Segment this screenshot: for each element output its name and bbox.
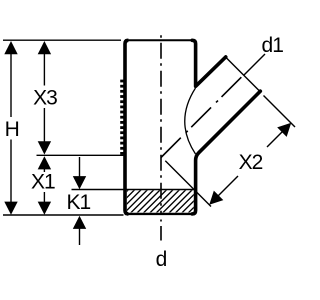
svg-text:X3: X3 bbox=[33, 87, 57, 110]
dimension X1: vertical line bbox=[43, 162, 45, 172]
intersection arc of branch inside pipe bbox=[185, 88, 196, 154]
branch centerline (45 deg axis, dash-dot) bbox=[161, 75, 244, 158]
hatch: sectioned socket wall at bottom of fitting bbox=[100, 185, 216, 218]
dimension X2 line along branch axis bbox=[217, 176, 238, 197]
main centerline (vertical axis of pipe, dash-dot) bbox=[160, 35, 162, 215]
K1 arrow down (above line) bbox=[73, 176, 86, 189]
mid reference line (branch root level) bbox=[37, 154, 125, 156]
svg-text:d: d bbox=[156, 248, 167, 271]
d1 leader line (extension of branch axis to label) bbox=[244, 54, 265, 75]
X2 upper extension line (branch end face extended) bbox=[264, 96, 296, 128]
dimension H: vertical line bbox=[10, 47, 12, 117]
X3 arrow down bbox=[38, 141, 51, 154]
dimension X3: vertical line bbox=[43, 48, 45, 86]
branch lower edge + pipe right wall lower (thick) bbox=[192, 91, 260, 214]
serration ticks on left wall of socket bbox=[120, 81, 124, 153]
X2 arrow lower (points down-left) bbox=[209, 191, 223, 205]
svg-text:K1: K1 bbox=[66, 191, 90, 214]
H arrow up bbox=[4, 41, 17, 54]
H arrow down bbox=[4, 202, 17, 215]
pipe left wall (thick) bbox=[125, 40, 128, 214]
X2 lower extension line (through axis crossing, perpendicular to branch) bbox=[165, 161, 211, 207]
svg-text:d1: d1 bbox=[262, 34, 284, 57]
pipe top edge (spigot end, medium line) bbox=[125, 39, 195, 41]
dimension K1: arrows outside bbox=[79, 157, 81, 178]
svg-text:X1: X1 bbox=[31, 171, 55, 194]
branch end face (socket opening, thin line) bbox=[226, 57, 260, 91]
top reference line (top of fitting) bbox=[3, 39, 121, 41]
svg-text:X2: X2 bbox=[239, 151, 263, 174]
pipe right wall upper + branch upper edge (thick) bbox=[192, 40, 226, 86]
bottom reference line (bottom of fitting) bbox=[3, 214, 124, 216]
K1 reference line (socket shoulder) bbox=[72, 189, 195, 191]
X3 arrow up bbox=[38, 41, 51, 54]
svg-text:H: H bbox=[5, 118, 19, 141]
pipe bottom edge (medium line) bbox=[125, 213, 195, 215]
K1 arrow up (below line) bbox=[73, 216, 86, 229]
X2 arrow upper (points up-right) bbox=[277, 123, 291, 137]
X1 arrow up bbox=[38, 156, 51, 169]
X1 arrow down bbox=[38, 202, 51, 215]
